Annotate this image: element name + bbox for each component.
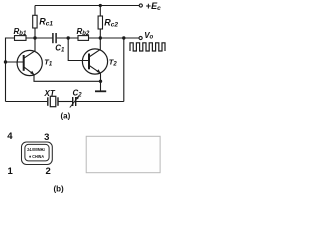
svg-text:2: 2: [46, 166, 51, 177]
svg-text:(b): (b): [54, 185, 65, 194]
resistor R_b1: [14, 27, 27, 40]
svg-text:1: 1: [8, 166, 14, 177]
wire Rc2 top lead: [99, 6, 101, 17]
wire Rc2 bottom lead: [99, 29, 101, 38]
crystal package outline: [22, 142, 53, 165]
capacitor C1: [53, 33, 65, 54]
wire Rb2 to T2 collector node: [89, 37, 140, 39]
wire C1 to node B: [57, 37, 78, 39]
transistor T2: [82, 49, 117, 74]
wire T2 collector lead: [89, 38, 100, 57]
resistor R_c1: [33, 15, 54, 28]
crystal XT: [44, 89, 59, 107]
resistor R_c2: [98, 16, 118, 29]
wire T1 collector lead: [24, 38, 35, 58]
variable capacitor C2: [70, 89, 82, 108]
svg-text:(a): (a): [61, 111, 71, 120]
wire C2 to right drop: [76, 101, 124, 103]
svg-text:4: 4: [7, 131, 13, 142]
wire top supply rail: [35, 5, 139, 7]
svg-text:● CHINA: ● CHINA: [29, 154, 44, 160]
resistor R_b2: [77, 27, 90, 40]
crystal package lid: [25, 144, 49, 161]
junction node A (T1 collector): [33, 36, 36, 39]
wire T1 emitter to T2 emitter: [34, 75, 101, 82]
ground: [95, 90, 106, 92]
svg-text:24.000MHz: 24.000MHz: [27, 147, 45, 153]
junction emitter node: [99, 80, 102, 83]
svg-text:3: 3: [44, 132, 49, 143]
terminal Vo: [139, 36, 142, 39]
wire left vertical from Rb1 to bottom rail: [6, 38, 15, 102]
transistor T1: [17, 50, 53, 75]
junction T2 collector node: [99, 36, 102, 39]
square wave output symbol: [130, 43, 165, 51]
wire bottom rail left segment to XT: [6, 101, 48, 103]
wire Rc1 top lead: [34, 6, 36, 16]
wire XT to C2: [58, 101, 72, 103]
svg-text:XT: XT: [44, 89, 56, 98]
junction dot top rail / Rc2: [99, 4, 102, 7]
photo placeholder rectangle: [86, 136, 160, 172]
wire Rb1 to node A: [26, 37, 52, 39]
wire T1 base lead: [6, 61, 24, 63]
wire right vertical feedback drop: [123, 38, 125, 102]
wire Rc1 bottom lead: [34, 28, 36, 38]
junction node B (C1 / Rb2 / T2 base): [67, 36, 70, 39]
terminal +Ec: [139, 4, 142, 7]
junction feedback drop node: [122, 36, 125, 39]
wire node B down to T2 base: [68, 38, 89, 61]
junction T1 base node: [4, 60, 7, 63]
wire T2 emitter down to ground: [100, 73, 102, 90]
